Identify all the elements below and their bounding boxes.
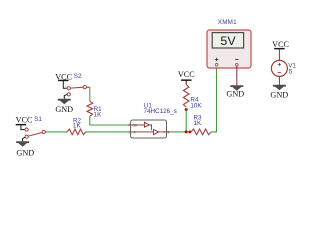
- svg-text:GND: GND: [16, 149, 34, 158]
- node VCC (S2): [55, 73, 72, 89]
- label U1: [144, 102, 177, 114]
- svg-text:VCC: VCC: [272, 40, 289, 49]
- svg-text:S2: S2: [74, 73, 82, 80]
- svg-text:1K: 1K: [194, 120, 203, 127]
- svg-text:GND: GND: [270, 90, 288, 99]
- ground (S2): [55, 94, 73, 114]
- svg-text:5V: 5V: [220, 34, 236, 48]
- wire R1 to U1 OE: [90, 116, 131, 125]
- svg-text:S1: S1: [34, 116, 42, 123]
- wire S2 pole to R1: [89, 87, 91, 101]
- op-amp U1 74HC126 buffer body: [131, 120, 167, 138]
- resistor R3: [191, 129, 211, 135]
- switch S2: [67, 86, 90, 96]
- node VCC (R4): [178, 70, 195, 85]
- svg-text:OE: OE: [132, 123, 138, 127]
- resistor R1: [87, 101, 93, 116]
- resistor R4: [183, 85, 189, 108]
- svg-text:GND: GND: [55, 105, 73, 114]
- wire R4 to junction: [185, 110, 187, 132]
- label R1 1K: [94, 106, 103, 119]
- svg-text:2: 2: [128, 123, 130, 127]
- svg-text:XMM1: XMM1: [218, 19, 237, 26]
- svg-text:3: 3: [167, 131, 169, 135]
- node VCC (V1): [272, 40, 289, 60]
- multimeter XMM1 body: [207, 30, 251, 68]
- svg-text:10K: 10K: [190, 103, 202, 110]
- svg-text:VCC: VCC: [16, 116, 33, 125]
- ground (V1): [270, 85, 288, 100]
- node junction dot: [185, 130, 188, 133]
- node dot R4 pin: [185, 108, 188, 111]
- wire XMM1 minus to ground: [236, 66, 238, 85]
- node VCC (S1): [16, 116, 33, 130]
- wire U1 output to junction: [167, 131, 187, 133]
- svg-text:5: 5: [289, 68, 293, 75]
- svg-text:1: 1: [128, 131, 130, 135]
- svg-text:1K: 1K: [94, 112, 103, 119]
- wire R3 to XMM1 plus: [211, 66, 216, 132]
- wire V1 to ground: [278, 76, 280, 84]
- label V1 5: [288, 62, 296, 75]
- ground (XMM1): [226, 85, 244, 98]
- ground (S1): [16, 137, 34, 157]
- svg-text:GND: GND: [226, 90, 244, 99]
- switch S1: [25, 128, 45, 138]
- svg-text:VCC: VCC: [178, 70, 195, 79]
- wire S1 pole to R2: [45, 131, 67, 133]
- voltage source V1: [271, 60, 287, 76]
- label R2 1K: [73, 117, 82, 129]
- node dot R3 pin: [188, 131, 191, 134]
- label R4 10K: [190, 96, 202, 109]
- resistor R2: [67, 129, 86, 135]
- svg-text:74HC126_s: 74HC126_s: [144, 108, 177, 115]
- wire R2 to U1 A: [86, 131, 131, 133]
- label R3 1K: [194, 114, 203, 127]
